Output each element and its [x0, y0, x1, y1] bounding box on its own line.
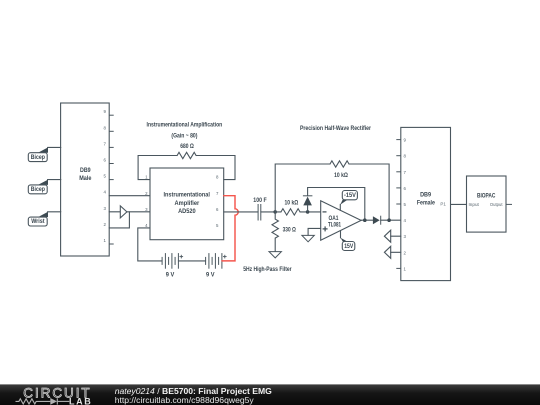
- svg-text:5Hz High-Pass Filter: 5Hz High-Pass Filter: [243, 266, 292, 273]
- svg-text:DB9: DB9: [80, 167, 91, 174]
- svg-text:10 kΩ: 10 kΩ: [334, 172, 348, 179]
- svg-text:BIOPAC: BIOPAC: [477, 192, 496, 199]
- svg-text:Bicep: Bicep: [31, 154, 45, 161]
- svg-text:P1: P1: [440, 202, 446, 207]
- svg-text:Female: Female: [417, 200, 436, 207]
- svg-text:LAB: LAB: [69, 397, 92, 405]
- svg-text:(Gain ~ 80): (Gain ~ 80): [171, 133, 197, 140]
- svg-text:330 Ω: 330 Ω: [283, 226, 296, 233]
- svg-text:Bicep: Bicep: [31, 186, 45, 193]
- svg-text:-15V: -15V: [344, 192, 357, 199]
- svg-text:Instrumentational: Instrumentational: [164, 191, 211, 198]
- svg-text:Amplifier: Amplifier: [175, 200, 200, 207]
- svg-text:9 V: 9 V: [206, 271, 215, 278]
- svg-text:Wrist: Wrist: [31, 218, 44, 225]
- svg-text:100 F: 100 F: [253, 197, 267, 204]
- svg-text:680 Ω: 680 Ω: [180, 143, 194, 150]
- svg-text:Precision Half-Wave Rectifier: Precision Half-Wave Rectifier: [300, 125, 371, 132]
- svg-text:Instrumentational Amplificatio: Instrumentational Amplification: [147, 121, 223, 128]
- svg-text:AD520: AD520: [178, 208, 196, 215]
- svg-text:DB9: DB9: [420, 192, 431, 199]
- svg-text:TL081: TL081: [328, 221, 341, 228]
- svg-text:10 kΩ: 10 kΩ: [285, 200, 299, 207]
- svg-text:Input: Input: [469, 202, 480, 207]
- svg-text:Output: Output: [490, 202, 503, 207]
- svg-text:9 V: 9 V: [166, 271, 175, 278]
- svg-text:Male: Male: [79, 175, 92, 182]
- svg-text:15V: 15V: [344, 243, 354, 250]
- svg-text:http://circuitlab.com/c988d96q: http://circuitlab.com/c988d96qweg5y: [115, 395, 255, 405]
